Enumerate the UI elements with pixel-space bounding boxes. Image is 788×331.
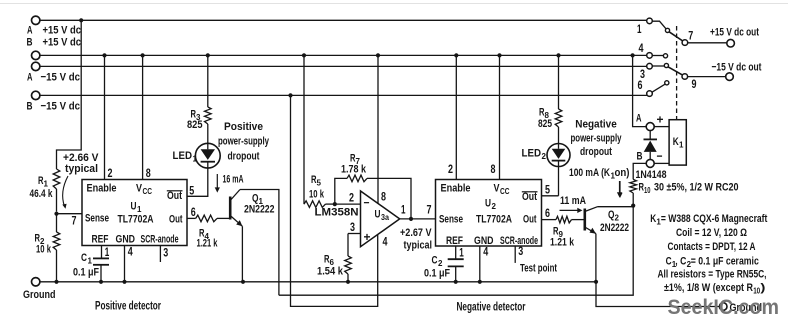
svg-text:Negative detector: Negative detector <box>457 302 526 314</box>
svg-text:−15 V dc: −15 V dc <box>41 101 81 113</box>
svg-text:2: 2 <box>108 168 113 180</box>
capacitor C1 0.1uF <box>73 252 109 282</box>
svg-text:46.4 k: 46.4 k <box>30 188 54 200</box>
switch arm pole 2 <box>668 67 683 75</box>
svg-text:10: 10 <box>644 186 651 195</box>
svg-text:6: 6 <box>191 207 196 219</box>
wire rail B+15 down to relay A terminal <box>633 55 647 126</box>
svg-text:C: C <box>81 252 87 264</box>
contact 7 +15 common <box>682 31 727 46</box>
svg-text:V: V <box>494 183 500 195</box>
svg-text:1: 1 <box>401 205 406 217</box>
contact 9 -15 common <box>682 74 726 91</box>
svg-text:30 ±5%, 1/2 W RC20: 30 ±5%, 1/2 W RC20 <box>654 182 739 194</box>
annotation 100mA arrow down <box>617 181 622 198</box>
svg-text:5: 5 <box>189 185 194 197</box>
svg-text:Positive detector: Positive detector <box>95 301 161 313</box>
wire U1 pin3 SCR-anode stub <box>160 246 168 263</box>
wire rail B-15V to LM358 pin4 <box>291 95 388 306</box>
svg-text:dropout: dropout <box>580 146 612 158</box>
svg-text:2: 2 <box>448 164 453 176</box>
wire U2 pin5 /Out to LED2 <box>542 184 559 196</box>
svg-text:0.1 μF: 0.1 μF <box>424 268 450 280</box>
svg-text:+: + <box>364 232 371 244</box>
svg-text:+15 V dc out: +15 V dc out <box>710 27 759 39</box>
wire U2 pin1 REF <box>456 246 464 260</box>
IC U1 TL7702A box <box>82 180 187 246</box>
svg-text:+15 V dc: +15 V dc <box>43 25 82 37</box>
contact 4 B+15 throw <box>639 43 668 58</box>
svg-text:1.78 k: 1.78 k <box>341 164 367 176</box>
svg-text:16 mA: 16 mA <box>223 174 244 186</box>
relay K1 coil box <box>669 120 686 165</box>
svg-text:8: 8 <box>491 164 496 176</box>
annotation parts list notes <box>650 213 767 296</box>
op-amp U3a LM358N <box>315 191 400 247</box>
svg-text:SCR-anode: SCR-anode <box>141 234 179 246</box>
svg-text:Sense: Sense <box>439 214 463 226</box>
svg-text:C: C <box>666 256 672 268</box>
svg-text:1: 1 <box>105 247 110 259</box>
svg-text:−15 V dc out: −15 V dc out <box>712 62 762 74</box>
annotation +2.67V typical <box>400 227 432 252</box>
switch arm pole 1 <box>669 32 683 41</box>
svg-text:1.21 k: 1.21 k <box>550 237 575 249</box>
svg-text:power-supply: power-supply <box>218 136 269 148</box>
resistor R6 1.54k <box>317 234 351 282</box>
svg-text:−15 V dc: −15 V dc <box>41 72 81 84</box>
resistor R5 10k <box>304 174 335 207</box>
svg-text:6: 6 <box>638 80 643 92</box>
svg-text:LED: LED <box>522 148 542 160</box>
svg-text:B: B <box>27 37 33 49</box>
wire relay B to K1 coil <box>654 162 669 164</box>
transistor Q2 2N2222 <box>585 207 629 234</box>
svg-text:CC: CC <box>143 187 153 196</box>
resistor R8 825 <box>538 55 562 143</box>
svg-text:REF: REF <box>92 234 109 246</box>
wire Q1 collector to bottom link <box>240 190 279 296</box>
svg-text:SeekIC.com: SeekIC.com <box>668 296 780 319</box>
svg-text:Out: Out <box>167 190 182 202</box>
annotation positive power-supply dropout <box>218 121 269 163</box>
svg-text:1: 1 <box>88 257 93 266</box>
LED1 <box>173 143 221 168</box>
wire U1 pin8 Vcc to rail B+15 <box>143 55 152 180</box>
resistor R2 10k <box>35 214 60 282</box>
svg-text:825: 825 <box>187 119 203 131</box>
svg-text:2: 2 <box>492 202 497 211</box>
contact 1 A+15 throw <box>637 18 670 36</box>
svg-text:4: 4 <box>128 247 133 259</box>
annotation 11 mA arrow <box>560 195 587 213</box>
svg-text:U: U <box>485 198 491 210</box>
svg-text:TL7702A: TL7702A <box>476 214 512 226</box>
resistor R7 1.78k feedback <box>335 153 411 219</box>
annotation 16 mA arrow <box>215 174 244 193</box>
svg-text:100 mA (K: 100 mA (K <box>569 167 611 179</box>
svg-text:+: + <box>657 113 664 127</box>
wire U1 pin4 GND <box>125 246 134 282</box>
wire U1 pin6 Out <box>187 207 196 219</box>
svg-text:typical: typical <box>65 163 98 175</box>
svg-text:1N4148: 1N4148 <box>636 169 667 181</box>
wire rail B -15V <box>40 93 647 97</box>
svg-text:7: 7 <box>427 205 432 217</box>
annotation negative power-supply dropout <box>571 119 622 159</box>
wire LED1 to U1 pin5 <box>187 168 208 196</box>
annotation 100 mA K1 on <box>569 167 630 198</box>
wire Q2 collector to node <box>598 206 634 208</box>
wire Q2 emitter to ground <box>594 234 598 284</box>
wire U1 pin5 /Out <box>187 185 208 197</box>
svg-text:Coil = 12 V, 120 Ω: Coil = 12 V, 120 Ω <box>676 227 747 239</box>
svg-text:825: 825 <box>538 118 552 130</box>
svg-text:7: 7 <box>72 216 77 228</box>
svg-text:+15 V dc: +15 V dc <box>43 37 82 49</box>
terminal B +15V input <box>27 37 82 60</box>
terminal A relay coil + <box>636 113 664 131</box>
svg-text:5: 5 <box>317 179 322 188</box>
svg-text:0.1 μF: 0.1 μF <box>73 267 99 279</box>
svg-text:Enable: Enable <box>441 183 471 195</box>
wire U1 pin1 REF <box>102 246 110 260</box>
transistor Q1 2N2222 <box>217 190 275 227</box>
svg-text:Enable: Enable <box>87 183 117 195</box>
svg-text:2: 2 <box>349 193 354 205</box>
wire rail B+15 to R5 <box>303 55 305 204</box>
svg-text:Out: Out <box>523 214 537 226</box>
wire ground rail <box>40 280 596 284</box>
capacitor C2 0.1uF <box>424 255 464 282</box>
svg-text:Sense: Sense <box>85 213 109 225</box>
resistor R3 825 <box>187 55 211 143</box>
wire relay B to R10 <box>633 163 646 179</box>
svg-text:U: U <box>375 209 381 221</box>
wire sense to U1 pin7 <box>57 214 83 228</box>
svg-text:All resistors = Type RN55C,: All resistors = Type RN55C, <box>658 269 767 281</box>
svg-text:typical: typical <box>404 240 433 252</box>
contact 3 A-15 throw <box>640 63 669 81</box>
svg-text:6: 6 <box>545 208 550 220</box>
svg-text:11 mA: 11 mA <box>560 195 586 207</box>
svg-text:A: A <box>27 25 33 37</box>
svg-text:= W388 CQX-6 Magnecraft: = W388 CQX-6 Magnecraft <box>661 213 768 225</box>
svg-text:GND: GND <box>116 234 136 246</box>
svg-text:Negative: Negative <box>575 119 617 131</box>
resistor R4 1.21k <box>196 215 218 249</box>
terminal B relay coil - <box>637 149 663 167</box>
terminal Ground right <box>719 302 762 314</box>
svg-text:±1%, 1/8 W (except R: ±1%, 1/8 W (except R <box>664 282 753 294</box>
resistor R10 30ohm <box>630 179 739 205</box>
svg-text:A: A <box>27 72 33 84</box>
svg-text:C: C <box>432 255 438 267</box>
svg-text:1: 1 <box>459 248 464 260</box>
svg-text:on): on) <box>615 167 630 179</box>
svg-text:3: 3 <box>518 246 523 258</box>
svg-text:GND: GND <box>474 235 494 247</box>
svg-text:4: 4 <box>383 237 388 249</box>
svg-text:dropout: dropout <box>228 151 260 163</box>
svg-text:3: 3 <box>350 222 355 234</box>
svg-text:Contacts = DPDT, 12 A: Contacts = DPDT, 12 A <box>668 241 756 253</box>
IC U2 TL7702A box <box>436 180 542 248</box>
svg-text:4: 4 <box>483 247 488 259</box>
svg-text:Out: Out <box>522 191 537 203</box>
svg-text:CC: CC <box>500 187 510 196</box>
wire A+15V to R1 <box>57 20 82 169</box>
terminal +15V dc out <box>710 27 759 48</box>
svg-text:−: − <box>657 149 663 163</box>
svg-text:2N2222: 2N2222 <box>600 222 629 234</box>
resistor R9 1.21k <box>550 216 584 248</box>
wire U2 pin6 Out <box>542 208 557 220</box>
wire U2 pin2 enable to rail B+15 <box>448 55 456 179</box>
svg-text:1: 1 <box>193 155 198 164</box>
svg-text:B: B <box>637 151 643 163</box>
node sense divider junction <box>54 212 58 216</box>
svg-text:U: U <box>131 201 137 213</box>
wire LED2 to U2 pin5 <box>558 167 560 196</box>
wire U2 pin4 GND <box>480 246 489 282</box>
svg-text:V: V <box>136 183 142 195</box>
svg-text:2N2222: 2N2222 <box>244 204 275 216</box>
wire rail A +15V <box>40 18 647 22</box>
svg-text:1.21 k: 1.21 k <box>197 238 218 250</box>
faint top scan line <box>0 3 788 5</box>
svg-text:8: 8 <box>381 192 386 204</box>
svg-text:B: B <box>27 101 33 113</box>
svg-text:TL7702A: TL7702A <box>118 214 154 226</box>
contact 6 B-15 throw <box>638 80 669 96</box>
wire rail A -15V <box>40 65 647 67</box>
svg-text:, C: , C <box>675 256 686 268</box>
svg-text:A: A <box>636 113 642 125</box>
terminal -15V dc out <box>712 62 762 81</box>
wire U2 pin8 Vcc to rail B+15 <box>491 55 500 179</box>
svg-text:1.54 k: 1.54 k <box>317 266 344 278</box>
terminal Ground input <box>23 278 56 301</box>
svg-text:Test point: Test point <box>520 263 557 275</box>
svg-text:8: 8 <box>146 168 151 180</box>
terminal B -15V input <box>27 91 81 112</box>
svg-text:LM358N: LM358N <box>315 207 359 219</box>
svg-text:7: 7 <box>688 31 693 43</box>
svg-text:2: 2 <box>542 152 547 161</box>
wire LM358 pin3 noninverting input <box>348 222 361 234</box>
svg-text:): ) <box>760 282 765 294</box>
svg-text:power-supply: power-supply <box>571 133 622 145</box>
wire LM358 output to U2 sense <box>400 205 436 221</box>
svg-text:5: 5 <box>545 184 550 196</box>
node Q1 Q2 collector junction <box>631 204 635 208</box>
svg-text:Positive: Positive <box>224 121 263 133</box>
terminal A +15V input <box>27 16 81 36</box>
annotation +2.66V typical <box>62 152 99 209</box>
wire Q1 emitter to ground <box>241 226 243 281</box>
svg-text:10 k: 10 k <box>309 189 324 201</box>
wire ground to right ground terminal <box>596 282 719 307</box>
LED2 <box>522 144 571 167</box>
wire LM358 pin8 V+ to rail B+15 <box>378 55 386 203</box>
svg-text:1: 1 <box>637 24 642 36</box>
diode 1N4148 flyback <box>636 131 667 181</box>
terminal A -15V input <box>27 62 80 83</box>
svg-text:10 k: 10 k <box>36 244 51 256</box>
svg-text:= 0.1 μF ceramic: = 0.1 μF ceramic <box>691 256 759 268</box>
svg-text:+2.67 V: +2.67 V <box>400 227 432 239</box>
node inverting input junction <box>333 193 361 207</box>
resistor R1 46.4k <box>30 169 60 212</box>
svg-text:9: 9 <box>692 79 697 91</box>
svg-text:−: − <box>364 198 370 210</box>
svg-text:Ground: Ground <box>23 289 56 301</box>
svg-text:4: 4 <box>639 43 644 55</box>
svg-text:1: 1 <box>679 141 684 150</box>
wire collector node to bottom link <box>279 206 633 296</box>
svg-text:3: 3 <box>163 248 168 260</box>
svg-text:3a: 3a <box>381 213 389 222</box>
wire U2 pin3 SCR-anode test point <box>515 246 557 275</box>
wire relay A to K1 coil <box>654 126 669 128</box>
svg-text:LED: LED <box>173 150 193 162</box>
svg-text:Out: Out <box>169 214 183 226</box>
svg-text:REF: REF <box>446 235 463 247</box>
relay actuation dashed link <box>676 26 678 120</box>
wire U1 pin2 enable to rail B+15 <box>105 55 113 180</box>
wire rail B +15V <box>40 53 647 57</box>
